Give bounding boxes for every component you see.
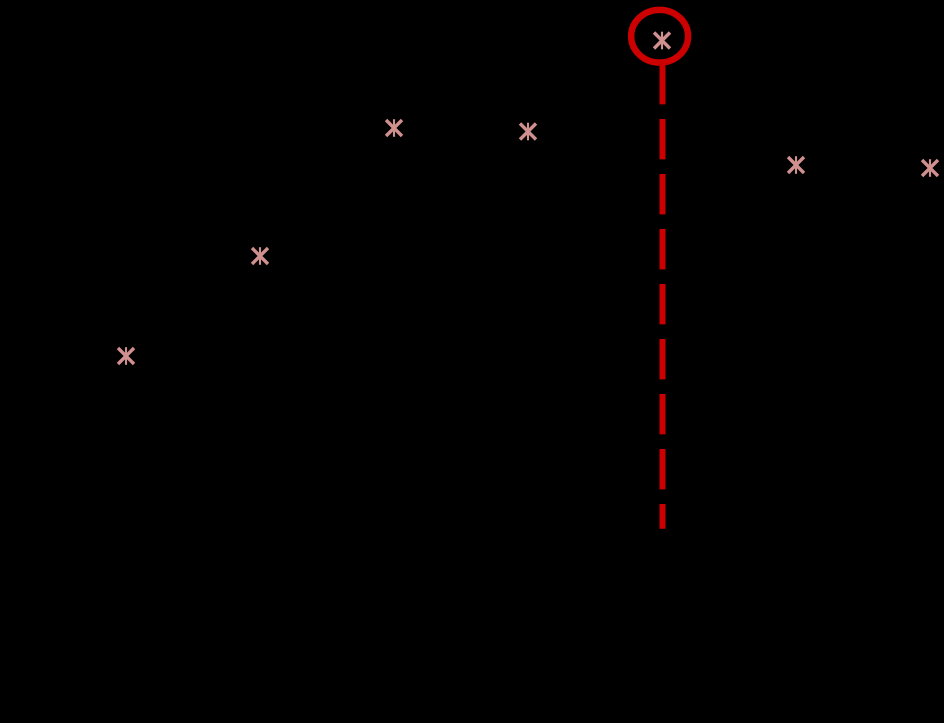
marker point 3 (394,128) bbox=[386, 119, 402, 137]
marker point 7 (930,168) bbox=[922, 159, 938, 177]
marker point 6 (796,165) bbox=[788, 156, 804, 174]
marker point 5 circled (662,40.5) bbox=[654, 32, 670, 50]
marker point 2 (260,256) bbox=[252, 247, 268, 265]
marker point 1 (126,356) bbox=[118, 347, 134, 365]
dashed drop line from circled point bbox=[660, 64, 666, 529]
marker point 4 (528,131.5) bbox=[520, 123, 536, 141]
highlight circle around point 5 bbox=[631, 10, 688, 63]
